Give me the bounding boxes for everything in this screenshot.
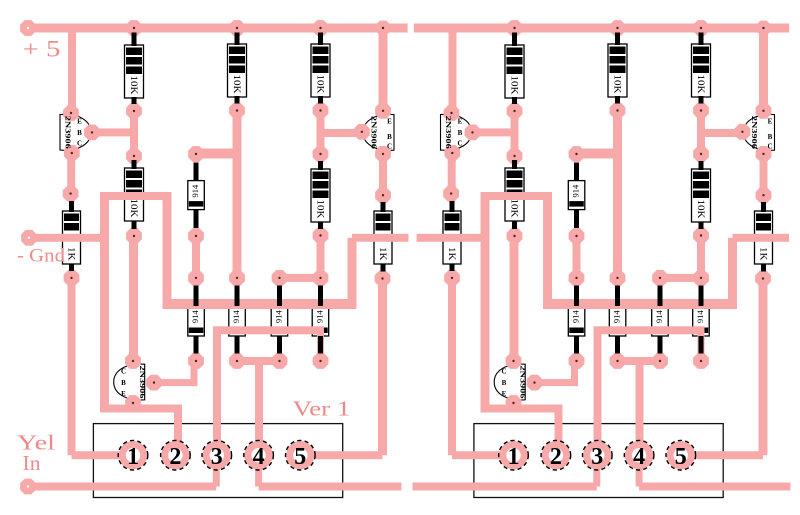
svg-text:2N3906: 2N3906 <box>444 116 453 149</box>
svg-text:914: 914 <box>190 310 200 324</box>
svg-text:10K: 10K <box>695 75 705 94</box>
svg-text:2N3906: 2N3906 <box>138 366 147 399</box>
svg-text:914: 914 <box>273 310 283 324</box>
svg-text:914: 914 <box>314 310 324 324</box>
svg-text:10K: 10K <box>695 200 705 219</box>
svg-text:1K: 1K <box>66 247 76 261</box>
svg-text:E: E <box>77 118 82 126</box>
svg-text:3: 3 <box>591 444 603 470</box>
svg-text:2N3906: 2N3906 <box>519 366 528 399</box>
svg-text:Ver 1: Ver 1 <box>293 397 351 421</box>
svg-text:B: B <box>77 129 82 137</box>
svg-text:4: 4 <box>253 444 265 470</box>
svg-text:- Gnd: - Gnd <box>17 246 66 267</box>
svg-text:914: 914 <box>570 310 580 324</box>
svg-text:10K: 10K <box>315 75 325 94</box>
svg-text:E: E <box>458 118 463 126</box>
svg-text:2: 2 <box>550 444 562 470</box>
svg-text:+ 5: + 5 <box>23 37 61 62</box>
svg-text:In: In <box>23 451 42 475</box>
svg-text:10K: 10K <box>231 75 241 94</box>
svg-text:10K: 10K <box>612 75 622 94</box>
svg-text:C: C <box>501 368 506 376</box>
svg-text:1K: 1K <box>377 247 387 261</box>
svg-text:914: 914 <box>654 310 664 324</box>
svg-text:C: C <box>767 143 772 151</box>
svg-text:E: E <box>502 390 507 398</box>
svg-text:B: B <box>458 129 463 137</box>
svg-text:10K: 10K <box>315 200 325 219</box>
svg-text:B: B <box>121 379 126 387</box>
svg-text:E: E <box>768 118 773 126</box>
svg-text:C: C <box>457 140 462 148</box>
svg-text:E: E <box>387 118 392 126</box>
svg-text:10K: 10K <box>128 76 138 95</box>
svg-text:914: 914 <box>190 184 200 198</box>
svg-text:914: 914 <box>570 184 580 198</box>
svg-text:10K: 10K <box>509 199 519 218</box>
svg-text:C: C <box>77 140 82 148</box>
svg-text:4: 4 <box>633 444 645 470</box>
svg-text:E: E <box>121 390 126 398</box>
svg-text:2: 2 <box>169 444 181 470</box>
svg-text:10K: 10K <box>509 76 519 95</box>
svg-text:3: 3 <box>211 444 223 470</box>
svg-text:914: 914 <box>231 310 241 324</box>
svg-text:C: C <box>387 143 392 151</box>
svg-text:10K: 10K <box>128 199 138 218</box>
svg-text:C: C <box>121 368 126 376</box>
svg-text:2N3906: 2N3906 <box>63 116 72 149</box>
svg-text:914: 914 <box>695 310 705 324</box>
svg-text:1K: 1K <box>446 247 456 261</box>
svg-text:1K: 1K <box>758 247 768 261</box>
svg-text:B: B <box>502 379 507 387</box>
svg-text:B: B <box>768 133 773 141</box>
svg-text:5: 5 <box>675 444 687 470</box>
svg-text:1: 1 <box>127 444 139 470</box>
svg-text:914: 914 <box>611 310 621 324</box>
svg-text:2N3906: 2N3906 <box>370 116 379 149</box>
svg-text:5: 5 <box>294 444 306 470</box>
svg-text:1: 1 <box>508 444 520 470</box>
svg-text:B: B <box>387 133 392 141</box>
svg-text:2N3906: 2N3906 <box>750 116 759 149</box>
